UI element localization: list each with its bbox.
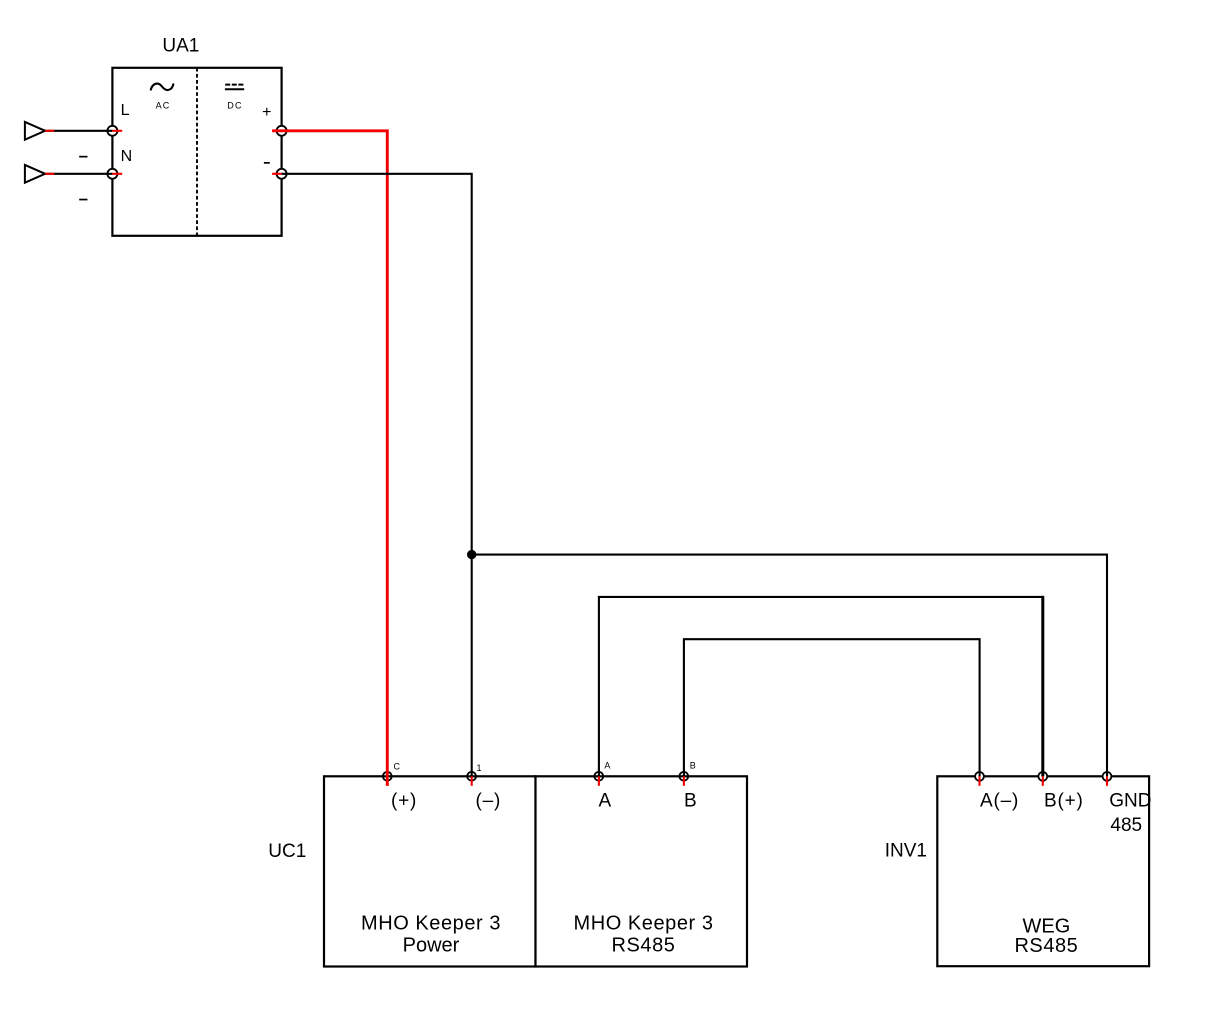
MHO Keeper 3 Power box UC1 bbox=[324, 776, 536, 966]
terminal A(-) bbox=[975, 772, 984, 781]
wire B to A(-) bbox=[684, 639, 980, 776]
WEG RS485 box INV1 bbox=[937, 776, 1149, 966]
svg-text:MHO Keeper 3: MHO Keeper 3 bbox=[574, 913, 714, 935]
UA1 AC symbol (tilde) bbox=[151, 84, 174, 91]
AC/DC converter UA1 body bbox=[112, 68, 281, 236]
red wire + to (+) bbox=[272, 131, 387, 786]
red pin tick A(-) bbox=[978, 776, 980, 785]
terminal - bbox=[277, 169, 287, 179]
svg-text:RS485: RS485 bbox=[1014, 935, 1078, 957]
svg-text:B(+): B(+) bbox=[1044, 791, 1084, 812]
terminal B(+) bbox=[1038, 772, 1047, 781]
wire N input bbox=[45, 173, 112, 175]
terminal A bbox=[594, 772, 603, 781]
UA1 AC/DC divider (dashed) bbox=[196, 68, 198, 236]
red pin tick L bbox=[112, 130, 122, 132]
svg-text:WEG: WEG bbox=[1023, 915, 1071, 937]
svg-text:A: A bbox=[604, 761, 610, 771]
red pin tick B(+) bbox=[1042, 776, 1044, 785]
wire - to (-) bbox=[272, 173, 282, 175]
svg-text:(+): (+) bbox=[391, 791, 417, 812]
red pin tick B bbox=[683, 776, 685, 786]
label - under arrow 2 bbox=[79, 199, 87, 201]
wire A to B(+) vertical drop bbox=[1041, 596, 1044, 777]
svg-text:L: L bbox=[121, 102, 130, 119]
svg-text:(–): (–) bbox=[476, 791, 502, 812]
input arrow 1 (line) bbox=[25, 122, 45, 140]
terminal N bbox=[107, 169, 117, 179]
svg-text:GND: GND bbox=[1109, 791, 1151, 812]
terminal + bbox=[277, 126, 287, 136]
svg-text:B: B bbox=[690, 761, 696, 771]
red pigtail N arrow bbox=[45, 173, 54, 175]
input arrow 2 (neutral) bbox=[25, 165, 45, 183]
svg-text:C: C bbox=[394, 762, 401, 772]
terminal L bbox=[107, 126, 117, 136]
terminal GND485 bbox=[1103, 772, 1112, 781]
label - under arrow 1 bbox=[79, 156, 87, 158]
svg-text:B: B bbox=[684, 791, 697, 812]
UA1 pin label - bbox=[264, 162, 270, 164]
wire junction to GND485 bbox=[472, 555, 1107, 777]
svg-text:UA1: UA1 bbox=[162, 36, 199, 57]
svg-text:A(–): A(–) bbox=[980, 791, 1019, 812]
terminal (+) C bbox=[383, 772, 392, 781]
svg-text:MHO Keeper 3: MHO Keeper 3 bbox=[361, 913, 501, 935]
svg-text:Power: Power bbox=[403, 935, 460, 957]
svg-text:DC: DC bbox=[227, 100, 242, 110]
svg-text:RS485: RS485 bbox=[612, 935, 676, 957]
svg-text:+: + bbox=[262, 104, 271, 121]
terminal B bbox=[679, 772, 688, 781]
wire black - down bbox=[282, 174, 472, 777]
red pin tick (-) bbox=[471, 776, 473, 786]
svg-text:1: 1 bbox=[477, 763, 482, 773]
red pigtail L arrow bbox=[45, 130, 54, 132]
red pin tick N bbox=[112, 173, 122, 175]
junction node bbox=[467, 550, 476, 559]
svg-text:N: N bbox=[121, 148, 133, 165]
terminal (-) 1 bbox=[467, 772, 476, 781]
wire A to B(+) bbox=[599, 597, 1043, 776]
red pin tick A bbox=[598, 776, 600, 786]
svg-text:AC: AC bbox=[156, 100, 171, 110]
wire L input bbox=[45, 130, 112, 132]
svg-text:INV1: INV1 bbox=[885, 840, 927, 861]
UA1 DC symbol bbox=[225, 85, 244, 90]
svg-text:UC1: UC1 bbox=[268, 841, 306, 862]
MHO Keeper 3 RS485 box bbox=[536, 776, 748, 966]
svg-text:A: A bbox=[599, 791, 612, 812]
red pin tick GND485 bbox=[1106, 776, 1108, 785]
svg-text:485: 485 bbox=[1110, 815, 1142, 836]
